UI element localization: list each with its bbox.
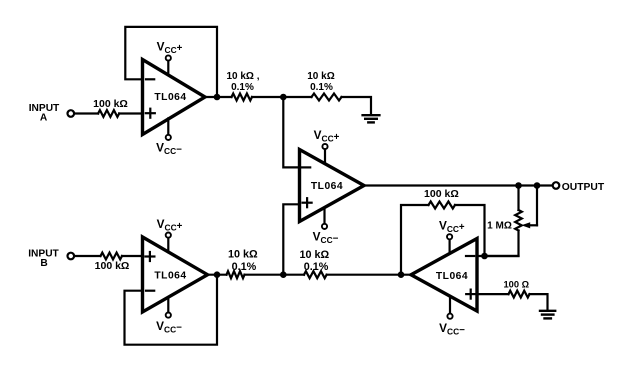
op-amp U2 <box>300 150 365 222</box>
svg-text:100 Ω: 100 Ω <box>504 280 530 290</box>
svg-text:B: B <box>40 258 47 269</box>
node output junction 2 <box>534 182 541 189</box>
wire R9 to U4 output <box>327 274 411 276</box>
R7 label <box>95 260 130 272</box>
svg-text:OUTPUT: OUTPUT <box>562 182 605 193</box>
resistor R9 10 kOhm 0.1% <box>304 271 327 278</box>
U3 VCC+ terminal <box>166 233 171 253</box>
U4 VCC- label <box>439 321 465 337</box>
wire U4 feedback right <box>455 205 485 256</box>
node bottom mid junction <box>280 271 287 278</box>
node U4 output junction <box>398 271 405 278</box>
R9 label <box>299 249 329 273</box>
node U4 inverting junction <box>481 253 488 260</box>
U2 VCC- label <box>313 230 339 246</box>
wire output junction1 to pot top <box>517 186 519 211</box>
OUTPUT terminal <box>553 182 560 189</box>
svg-text:10 kΩ: 10 kΩ <box>307 71 334 82</box>
svg-text:0.1%: 0.1% <box>310 82 333 93</box>
INPUT A terminal <box>68 110 75 117</box>
resistor R7 100 kOhm <box>101 253 123 260</box>
resistor R1 100 kOhm <box>98 110 119 117</box>
node U1 output junction <box>214 94 221 101</box>
wire U3 output <box>208 274 227 276</box>
U2 VCC+ terminal <box>322 144 327 164</box>
svg-text:0.1%: 0.1% <box>232 261 257 273</box>
resistor R3 10 kOhm 0.1% <box>312 94 342 101</box>
svg-text:TL064: TL064 <box>154 92 186 103</box>
svg-text:10 kΩ ,: 10 kΩ , <box>226 71 259 82</box>
wire top mid node to U2 inverting input <box>283 97 299 167</box>
wire R8 to R9 <box>245 274 305 276</box>
svg-text:100 kΩ: 100 kΩ <box>93 98 128 110</box>
ground G2 <box>540 311 555 319</box>
wire bottom mid node to U2 non-inverting input <box>283 204 299 274</box>
svg-text:A: A <box>40 113 48 124</box>
resistor R8 10 kOhm 0.1% <box>227 271 245 278</box>
wire U4 inverting input <box>477 255 519 257</box>
U4 label TL064 <box>436 271 468 282</box>
wire input A <box>74 112 98 114</box>
wire R7 to U3 <box>122 255 143 257</box>
wire R3 to ground <box>342 97 372 115</box>
R6 label <box>504 280 530 290</box>
node U3 output junction <box>214 271 221 278</box>
OUTPUT label <box>562 182 605 193</box>
wire input B <box>74 255 100 257</box>
svg-text:1 MΩ: 1 MΩ <box>487 221 512 232</box>
node top mid junction <box>280 94 287 101</box>
wire R1 to U1 <box>119 112 142 114</box>
U2 label TL064 <box>311 181 343 192</box>
wire R2 to R3 <box>252 96 312 98</box>
R2 label <box>226 71 259 93</box>
wire U1 output <box>205 96 232 98</box>
U1 VCC- label <box>156 141 182 157</box>
svg-text:TL064: TL064 <box>154 271 186 282</box>
op-amp U4 <box>411 239 477 312</box>
U4 VCC- terminal <box>447 297 452 319</box>
wire R6 to ground <box>530 294 548 310</box>
wire U1 feedback loop <box>125 27 217 97</box>
U3 VCC+ label <box>157 217 183 233</box>
R8 label <box>228 249 258 273</box>
ground G1 <box>363 115 380 122</box>
wire pot bottom to inverting node <box>485 231 519 257</box>
U3 VCC- label <box>156 319 182 335</box>
svg-text:10 kΩ: 10 kΩ <box>299 249 329 261</box>
wire pot wiper <box>521 186 537 229</box>
op-amp U3 <box>143 237 208 312</box>
U3 label TL064 <box>154 271 186 282</box>
wire U2 output rail <box>364 184 553 186</box>
R5 label <box>424 188 459 200</box>
U1 label TL064 <box>154 92 186 103</box>
R3 label <box>307 71 334 93</box>
potentiometer R4 1 MOhm body <box>515 210 522 231</box>
INPUT A label <box>29 103 60 123</box>
resistor R5 100 kOhm feedback <box>429 202 456 209</box>
svg-text:0.1%: 0.1% <box>231 82 254 93</box>
U1 VCC- terminal <box>166 118 171 140</box>
wire U4 feedback left <box>401 205 429 275</box>
U4 VCC+ terminal <box>447 234 452 253</box>
svg-text:0.1%: 0.1% <box>304 261 329 273</box>
op-amp U1 <box>143 60 206 135</box>
svg-text:TL064: TL064 <box>311 181 343 192</box>
INPUT B terminal <box>68 253 75 260</box>
U1 VCC+ terminal <box>166 55 171 74</box>
R1 label <box>93 98 128 110</box>
resistor R2 10 kOhm 0.1% <box>232 94 253 101</box>
resistor R6 100 Ohm <box>509 291 530 298</box>
svg-text:TL064: TL064 <box>436 271 468 282</box>
wire U4 non-inverting input <box>477 293 509 295</box>
INPUT B label <box>28 248 59 269</box>
svg-text:100 kΩ: 100 kΩ <box>95 260 130 272</box>
svg-text:10 kΩ: 10 kΩ <box>228 249 258 261</box>
U1 VCC+ label <box>157 39 183 55</box>
U3 VCC- terminal <box>166 298 171 318</box>
node output junction 1 <box>515 182 522 189</box>
R4 label 1 MOhm <box>487 221 512 232</box>
U4 VCC+ label <box>439 218 465 234</box>
U2 VCC- terminal <box>322 208 327 229</box>
svg-text:100 kΩ: 100 kΩ <box>424 188 459 200</box>
wire U3 feedback loop <box>125 275 218 345</box>
U2 VCC+ label <box>314 128 340 144</box>
